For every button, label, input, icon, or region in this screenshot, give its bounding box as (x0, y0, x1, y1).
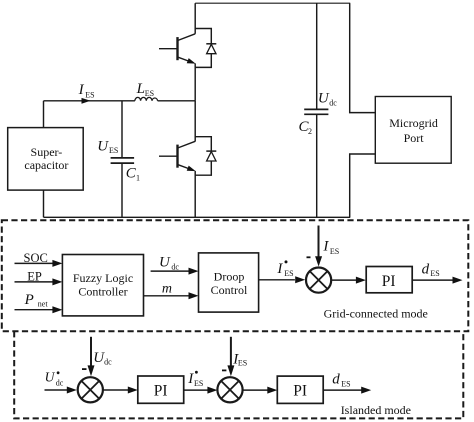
PI box islanded 2 (277, 376, 323, 403)
supercapacitor box (8, 128, 84, 191)
wire C1 top (121, 101, 123, 158)
label P_net (24, 292, 49, 309)
svg-text:PI: PI (293, 383, 307, 400)
svg-text:dc: dc (104, 358, 112, 367)
label microgrid port text (389, 116, 438, 145)
label U_dc circuit (318, 91, 337, 108)
wire supercap bottom leg (43, 190, 45, 217)
wire C2 bottom (316, 114, 318, 217)
svg-text:Microgrid: Microgrid (389, 116, 438, 130)
svg-text:U: U (318, 91, 330, 107)
svg-text:U: U (97, 139, 109, 155)
svg-text:Super-: Super- (31, 145, 63, 159)
wire C1 bottom (121, 163, 123, 217)
label d_ES grid (422, 262, 440, 278)
svg-text:SOC: SOC (24, 251, 48, 265)
label droop control text (211, 269, 248, 297)
svg-text:d: d (422, 262, 430, 278)
PI box grid mode (366, 267, 412, 293)
arrow I_ES on wire (82, 98, 91, 104)
svg-text:d: d (332, 371, 340, 387)
wire I_ES feedback vertical islanded (230, 337, 232, 368)
svg-text:capacitor: capacitor (24, 158, 68, 172)
label C2 (299, 119, 313, 136)
wire U_dc to droop control (151, 270, 190, 272)
label U*_dc (45, 369, 64, 387)
wire m to droop control (144, 295, 190, 297)
svg-text:Controller: Controller (78, 285, 127, 299)
label I*_ES islanded (187, 371, 203, 388)
label fuzzy logic controller text (73, 271, 133, 299)
svg-text:ES: ES (341, 379, 350, 388)
svg-text:dc: dc (171, 263, 179, 272)
svg-text:dc: dc (56, 379, 64, 388)
svg-text:dc: dc (329, 98, 337, 107)
wire SOC input (15, 262, 54, 264)
diode D2 (freewheeling lower) (195, 137, 216, 176)
svg-text:ES: ES (430, 269, 439, 278)
label U_ES (97, 139, 118, 156)
wire I_ES feedback vertical (318, 226, 320, 259)
inductor L_ES (135, 97, 158, 100)
capacitor C2 (304, 109, 328, 114)
wire top bus (195, 2, 350, 4)
wire P_net input (15, 309, 54, 311)
svg-text:P: P (24, 292, 34, 308)
svg-text:Fuzzy Logic: Fuzzy Logic (73, 271, 133, 285)
wire PI output d_ES (412, 279, 453, 281)
svg-text:PI: PI (382, 273, 396, 290)
summing junction grid mode (306, 268, 331, 293)
svg-text:ES: ES (330, 247, 339, 256)
transistor Q2 (IGBT lower) (159, 141, 196, 171)
svg-text:m: m (162, 281, 172, 296)
wire U_dc feedback vertical (90, 337, 92, 368)
label I_ES grid feedback (322, 239, 339, 256)
wire Q1 collector drop (194, 3, 196, 34)
svg-text:Port: Port (404, 131, 425, 145)
svg-text:net: net (38, 300, 49, 309)
PI box islanded 1 (138, 376, 184, 403)
svg-text:ES: ES (194, 379, 203, 388)
wire microgrid branch (350, 3, 376, 217)
svg-text:U: U (45, 369, 56, 384)
wire U*_dc input (45, 389, 68, 391)
svg-text:L: L (136, 81, 145, 97)
wire droop output I*_ES (259, 279, 295, 281)
svg-text:I: I (276, 261, 283, 277)
svg-text:ES: ES (109, 146, 118, 155)
svg-text:ES: ES (85, 90, 94, 99)
svg-text:ES: ES (145, 89, 154, 98)
svg-text:2: 2 (308, 127, 312, 136)
label I_ES wire (78, 82, 95, 99)
wire supercap top leg (43, 101, 45, 128)
svg-text:I: I (322, 239, 329, 255)
label U_dc block input (159, 254, 179, 271)
label minus grid (307, 256, 311, 258)
svg-text:EP: EP (27, 270, 42, 284)
dashed box islanded mode (14, 331, 463, 418)
wire Q2 emitter to bottom bus (194, 171, 196, 217)
wire summing2 to PI (243, 389, 269, 391)
diode D1 (freewheeling upper) (195, 29, 216, 68)
svg-text:Control: Control (211, 283, 248, 297)
wire summing1 to PI (103, 389, 129, 391)
svg-text:Grid-connected mode: Grid-connected mode (324, 307, 428, 321)
svg-text:Islanded mode: Islanded mode (341, 403, 411, 417)
svg-text:1: 1 (136, 173, 140, 182)
label minus islanded 1 (82, 368, 87, 370)
wire PI2 output d_ES (323, 389, 361, 391)
wire Q1 emitter to node (194, 63, 196, 100)
label I_ES islanded feedback (232, 351, 247, 367)
wire bottom bus (44, 216, 351, 218)
wire EP input (15, 281, 54, 283)
svg-text:ES: ES (284, 269, 293, 278)
label supercapacitor text (24, 145, 68, 172)
wire C2 top (316, 3, 318, 109)
capacitor C1 (111, 158, 135, 163)
Fuzzy Logic Controller box (62, 255, 143, 316)
wire PI1 output I*_ES (184, 389, 209, 391)
Microgrid Port box (375, 97, 451, 164)
dashed box grid-connected mode (2, 220, 469, 331)
label minus islanded 2 (222, 369, 226, 371)
wire summing to PI (332, 279, 357, 281)
label L_ES (136, 81, 155, 98)
wire I_ES horizontal (44, 100, 196, 102)
summing junction 2 islanded (217, 377, 242, 402)
transistor Q1 (IGBT upper) (159, 34, 196, 64)
svg-text:U: U (159, 254, 171, 270)
label U_dc islanded feedback (93, 350, 112, 367)
Droop Control box (199, 253, 259, 312)
label C1 (126, 166, 140, 183)
svg-text:I: I (78, 82, 85, 98)
summing junction 1 islanded (78, 377, 103, 402)
label I*_ES grid (276, 260, 293, 278)
wire node to Q2 (194, 101, 196, 142)
svg-text:ES: ES (238, 359, 247, 368)
svg-text:Droop: Droop (214, 269, 245, 283)
label d_ES islanded (332, 371, 350, 388)
svg-text:PI: PI (154, 382, 168, 399)
